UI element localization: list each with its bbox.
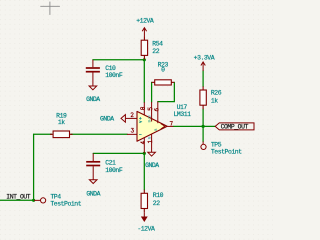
svg-text:B/S: B/S	[148, 115, 153, 123]
wire junction down to R10	[143, 153, 145, 189]
pin 1	[151, 134, 153, 152]
ground GNDA at pin 1	[148, 152, 156, 156]
svg-text:GNDA: GNDA	[145, 162, 159, 169]
svg-text:INT_OUT: INT_OUT	[6, 193, 30, 200]
inner + mark	[139, 117, 142, 123]
wire R23 left to pin5	[151, 82, 153, 102]
wire node down to TP5	[202, 126, 204, 141]
sheet crosshair	[40, 2, 60, 15]
svg-text:1k: 1k	[58, 119, 65, 126]
capacitor C21	[86, 153, 100, 179]
inner - mark	[139, 133, 142, 135]
comparator U17 LM311 body	[137, 111, 167, 141]
pin 8	[143, 102, 145, 115]
resistor R10	[141, 190, 147, 213]
wire vertical to INT_OUT	[33, 134, 35, 200]
svg-text:GNDA: GNDA	[86, 96, 100, 103]
wire INT_OUT corner to R19	[34, 133, 52, 135]
junction node at R54 bottom	[143, 58, 146, 61]
resistor R19	[50, 131, 73, 138]
svg-text:LM311: LM311	[174, 111, 192, 118]
resistor R23	[152, 80, 175, 85]
pin 5	[151, 102, 153, 122]
svg-text:C21: C21	[105, 160, 116, 167]
wire R19 to pin3	[71, 133, 127, 135]
pin 6	[157, 102, 159, 124]
junction node at output	[202, 125, 205, 128]
svg-text:GNDA: GNDA	[100, 116, 114, 123]
svg-text:0: 0	[161, 67, 165, 74]
svg-text:R54: R54	[152, 41, 163, 48]
wire +3.3VA to R26	[202, 71, 204, 87]
testpoint TP5	[202, 142, 204, 145]
pin 2	[126, 117, 137, 119]
wire INT_OUT horizontal	[0, 199, 34, 201]
capacitor C10	[86, 60, 100, 86]
pin 4	[143, 138, 145, 154]
ground GNDA under C21	[89, 180, 97, 184]
power +12VA	[142, 28, 146, 37]
svg-text:TestPoint: TestPoint	[50, 200, 81, 207]
wire R26 to output node	[202, 109, 204, 126]
svg-text:+3.3VA: +3.3VA	[194, 54, 215, 61]
open collector mark at output	[161, 124, 165, 129]
junction node at pin4	[143, 152, 146, 155]
svg-text:+12VA: +12VA	[136, 17, 154, 24]
pin 7 output	[167, 125, 173, 127]
svg-text:R26: R26	[211, 90, 222, 97]
wire R23 right to pin6	[158, 82, 175, 101]
power -12VA	[143, 212, 145, 217]
svg-text:R10: R10	[153, 192, 164, 199]
ground GNDA under C10	[89, 86, 97, 90]
testpoint TP4	[34, 199, 40, 201]
svg-text:U17: U17	[177, 104, 188, 111]
svg-text:22: 22	[153, 200, 160, 207]
junction node at INT_OUT	[32, 199, 35, 202]
svg-text:22: 22	[152, 48, 159, 55]
global label COMP_OUT	[215, 123, 254, 130]
wire C21 to pin4 junction	[93, 152, 144, 154]
svg-text:-12VA: -12VA	[137, 225, 155, 232]
svg-text:100nF: 100nF	[105, 72, 123, 79]
svg-text:TP5: TP5	[211, 142, 222, 149]
svg-text:COMP_OUT: COMP_OUT	[221, 124, 249, 131]
wire output pin7 to COMP_OUT	[173, 125, 215, 127]
power +3.3VA	[201, 62, 205, 71]
svg-text:100nF: 100nF	[105, 167, 123, 174]
resistor R54	[141, 37, 147, 60]
pin 3	[127, 133, 137, 135]
svg-text:TestPoint: TestPoint	[211, 149, 242, 156]
ground GNDA at pin 2	[121, 115, 125, 123]
wire C10 to R54 junction	[93, 59, 144, 61]
svg-text:C10: C10	[105, 65, 116, 72]
wire junction down to pin8	[143, 60, 145, 102]
svg-text:TP4: TP4	[50, 193, 61, 200]
resistor R26	[200, 86, 206, 109]
svg-text:GNDA: GNDA	[86, 190, 100, 197]
svg-text:1k: 1k	[211, 97, 218, 104]
